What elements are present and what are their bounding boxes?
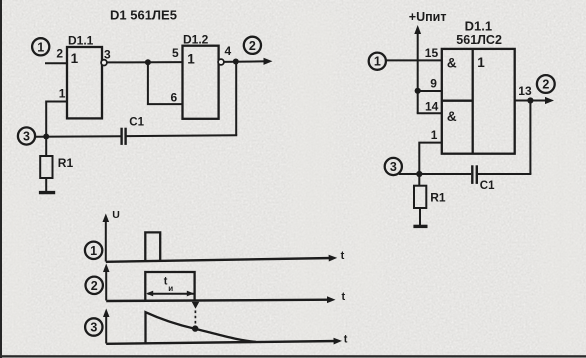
wire pin 1 to node 3 (right circuit)	[419, 143, 442, 174]
t label axis 1	[341, 250, 345, 262]
wire feedback vertical (left circuit)	[235, 62, 237, 136]
wire output pin 13 with arrow	[515, 97, 554, 104]
svg-text:2: 2	[249, 39, 256, 53]
svg-text:+Uпит: +Uпит	[409, 10, 447, 24]
pin label 15	[425, 46, 439, 60]
node 2 output terminal (left circuit)	[244, 37, 261, 54]
svg-text:C1: C1	[129, 117, 144, 129]
wire junction to resistor R1 (right circuit)	[418, 174, 420, 186]
svg-text:C1: C1	[480, 180, 495, 192]
IC U1 561ЛС2 body	[442, 49, 515, 154]
wire bottom rail right of C1 (right circuit)	[478, 173, 532, 175]
svg-text:2: 2	[542, 78, 549, 92]
wire bottom rail left of C1 (right circuit)	[399, 173, 471, 175]
wire bottom rail left of C1	[35, 135, 120, 138]
waveform 2 output pulse	[145, 272, 194, 301]
capacitor C1 (right circuit)	[472, 165, 495, 192]
svg-text:3: 3	[104, 47, 111, 61]
time axis 2 with arrow	[106, 296, 335, 303]
U axis label	[112, 209, 120, 221]
svg-text:и: и	[168, 284, 173, 293]
wire output with arrow (left circuit)	[224, 58, 273, 65]
U axis 2 short arrow	[103, 264, 110, 301]
pin label 6	[171, 91, 178, 105]
marker triangle at falling edge	[192, 302, 200, 309]
svg-text:R1: R1	[58, 156, 74, 170]
ground (right circuit)	[413, 225, 427, 228]
title D1 561ЛЕ5	[110, 8, 177, 23]
junction output feedback (right circuit)	[527, 97, 533, 103]
wire input pin 15	[386, 59, 442, 61]
resistor R1 (left circuit)	[40, 156, 73, 178]
wire feedback vertical (right circuit)	[529, 101, 531, 175]
node 1 input terminal (left circuit)	[32, 38, 49, 55]
junction supply to pin 9	[415, 88, 421, 94]
capacitor C1 (left circuit)	[122, 117, 145, 145]
wire bottom rail right of C1	[126, 134, 238, 137]
pin label 13	[518, 84, 532, 98]
t label axis 2	[342, 291, 346, 303]
dimension double arrow t_и	[146, 291, 194, 297]
svg-text:5: 5	[172, 46, 179, 60]
svg-text:D1 561ЛЕ5: D1 561ЛЕ5	[110, 8, 177, 23]
wire branch to pin 6 of D1.2	[148, 62, 183, 104]
junction node 3 rail	[43, 134, 49, 140]
supply label +Uпит	[409, 10, 447, 24]
scan border bottom edge	[0, 355, 586, 357]
svg-text:D1.1: D1.1	[68, 34, 94, 48]
wire resistor R1 to ground	[45, 178, 47, 191]
wire D1.1 output to D1.2 pin 5	[107, 61, 183, 63]
pin label 9	[430, 77, 437, 91]
label 561ЛС2	[456, 33, 502, 47]
svg-text:1: 1	[90, 244, 97, 258]
node 2 label (timing)	[86, 277, 103, 294]
label D1.1	[68, 34, 94, 48]
node 2 output terminal (right circuit)	[537, 75, 555, 93]
svg-text:&: &	[447, 109, 457, 124]
svg-text:D1.1: D1.1	[465, 18, 492, 33]
svg-text:561ЛС2: 561ЛС2	[456, 33, 502, 47]
svg-text:1: 1	[37, 40, 44, 54]
inversion bubble D1.2 output	[218, 59, 224, 65]
time axis 3 with arrow	[106, 338, 342, 345]
pin label 1 (D1.1 lower input)	[59, 87, 66, 101]
svg-text:1: 1	[187, 51, 195, 66]
svg-text:13: 13	[518, 84, 532, 98]
pin label 1 (right circuit)	[431, 128, 438, 142]
svg-text:3: 3	[23, 130, 30, 144]
node 3 terminal (left circuit)	[18, 127, 35, 144]
waveform 1 input pulse	[145, 232, 160, 261]
gate D1.2	[183, 46, 219, 119]
node 1 input terminal (right circuit)	[369, 53, 386, 70]
junction node 3 rail (right circuit)	[416, 171, 422, 177]
svg-text:1: 1	[477, 55, 485, 70]
svg-text:&: &	[447, 55, 457, 70]
wire input pin 1 of D1.1	[46, 102, 67, 137]
t label axis 3	[344, 333, 348, 345]
svg-text:15: 15	[425, 46, 439, 60]
svg-text:1: 1	[374, 55, 381, 69]
svg-text:14: 14	[425, 99, 439, 113]
pin label 2	[56, 46, 63, 60]
svg-text:3: 3	[390, 160, 397, 174]
svg-text:t: t	[344, 333, 348, 345]
wire junction to resistor R1	[45, 137, 47, 157]
node 3 terminal (right circuit)	[385, 158, 402, 175]
label t_и pulse width	[164, 275, 173, 293]
U axis 3 short arrow	[103, 309, 110, 344]
svg-text:U: U	[112, 209, 120, 221]
svg-text:4: 4	[225, 44, 232, 58]
junction node between gates	[145, 59, 151, 65]
resistor R1 (right circuit)	[414, 186, 446, 208]
wire pin 14 of DD1	[417, 112, 442, 114]
junction at output feedback	[233, 59, 239, 65]
inversion bubble D1.1 output	[101, 60, 107, 66]
svg-text:R1: R1	[430, 191, 446, 205]
time axis 1 with arrow	[106, 255, 337, 262]
svg-text:D1.2: D1.2	[183, 33, 209, 47]
node 3 label (timing)	[85, 318, 102, 335]
dashed projection line	[194, 311, 196, 325]
svg-text:2: 2	[91, 279, 98, 293]
ground (left circuit)	[39, 191, 55, 194]
node 1 label (timing)	[85, 242, 102, 259]
svg-text:1: 1	[71, 51, 79, 66]
svg-text:9: 9	[430, 77, 437, 91]
svg-text:t: t	[341, 250, 345, 262]
svg-text:3: 3	[90, 321, 97, 335]
label D1.1 (right circuit)	[465, 18, 492, 33]
label D1.2	[183, 33, 209, 47]
svg-text:t: t	[342, 291, 346, 303]
svg-text:2: 2	[56, 46, 63, 60]
supply +U wire with up arrow	[414, 25, 421, 113]
pin label 3	[104, 47, 111, 61]
wire resistor R1 to ground (right circuit)	[419, 208, 421, 225]
waveform 3 exponential decay	[146, 312, 257, 343]
pin label 14	[425, 99, 439, 113]
gate D1.1	[67, 47, 102, 118]
wire input pin 2 of D1.1	[45, 62, 67, 64]
U axis vertical with arrow	[103, 214, 110, 262]
svg-text:1: 1	[59, 87, 66, 101]
svg-text:t: t	[164, 275, 168, 287]
svg-text:6: 6	[171, 91, 178, 105]
wire pin 9 of DD1	[418, 90, 442, 92]
pin label 4	[225, 44, 232, 58]
pin label 5	[172, 46, 179, 60]
scan border left edge	[0, 0, 2, 358]
svg-text:1: 1	[431, 128, 438, 142]
sample dot on curve	[192, 325, 198, 331]
